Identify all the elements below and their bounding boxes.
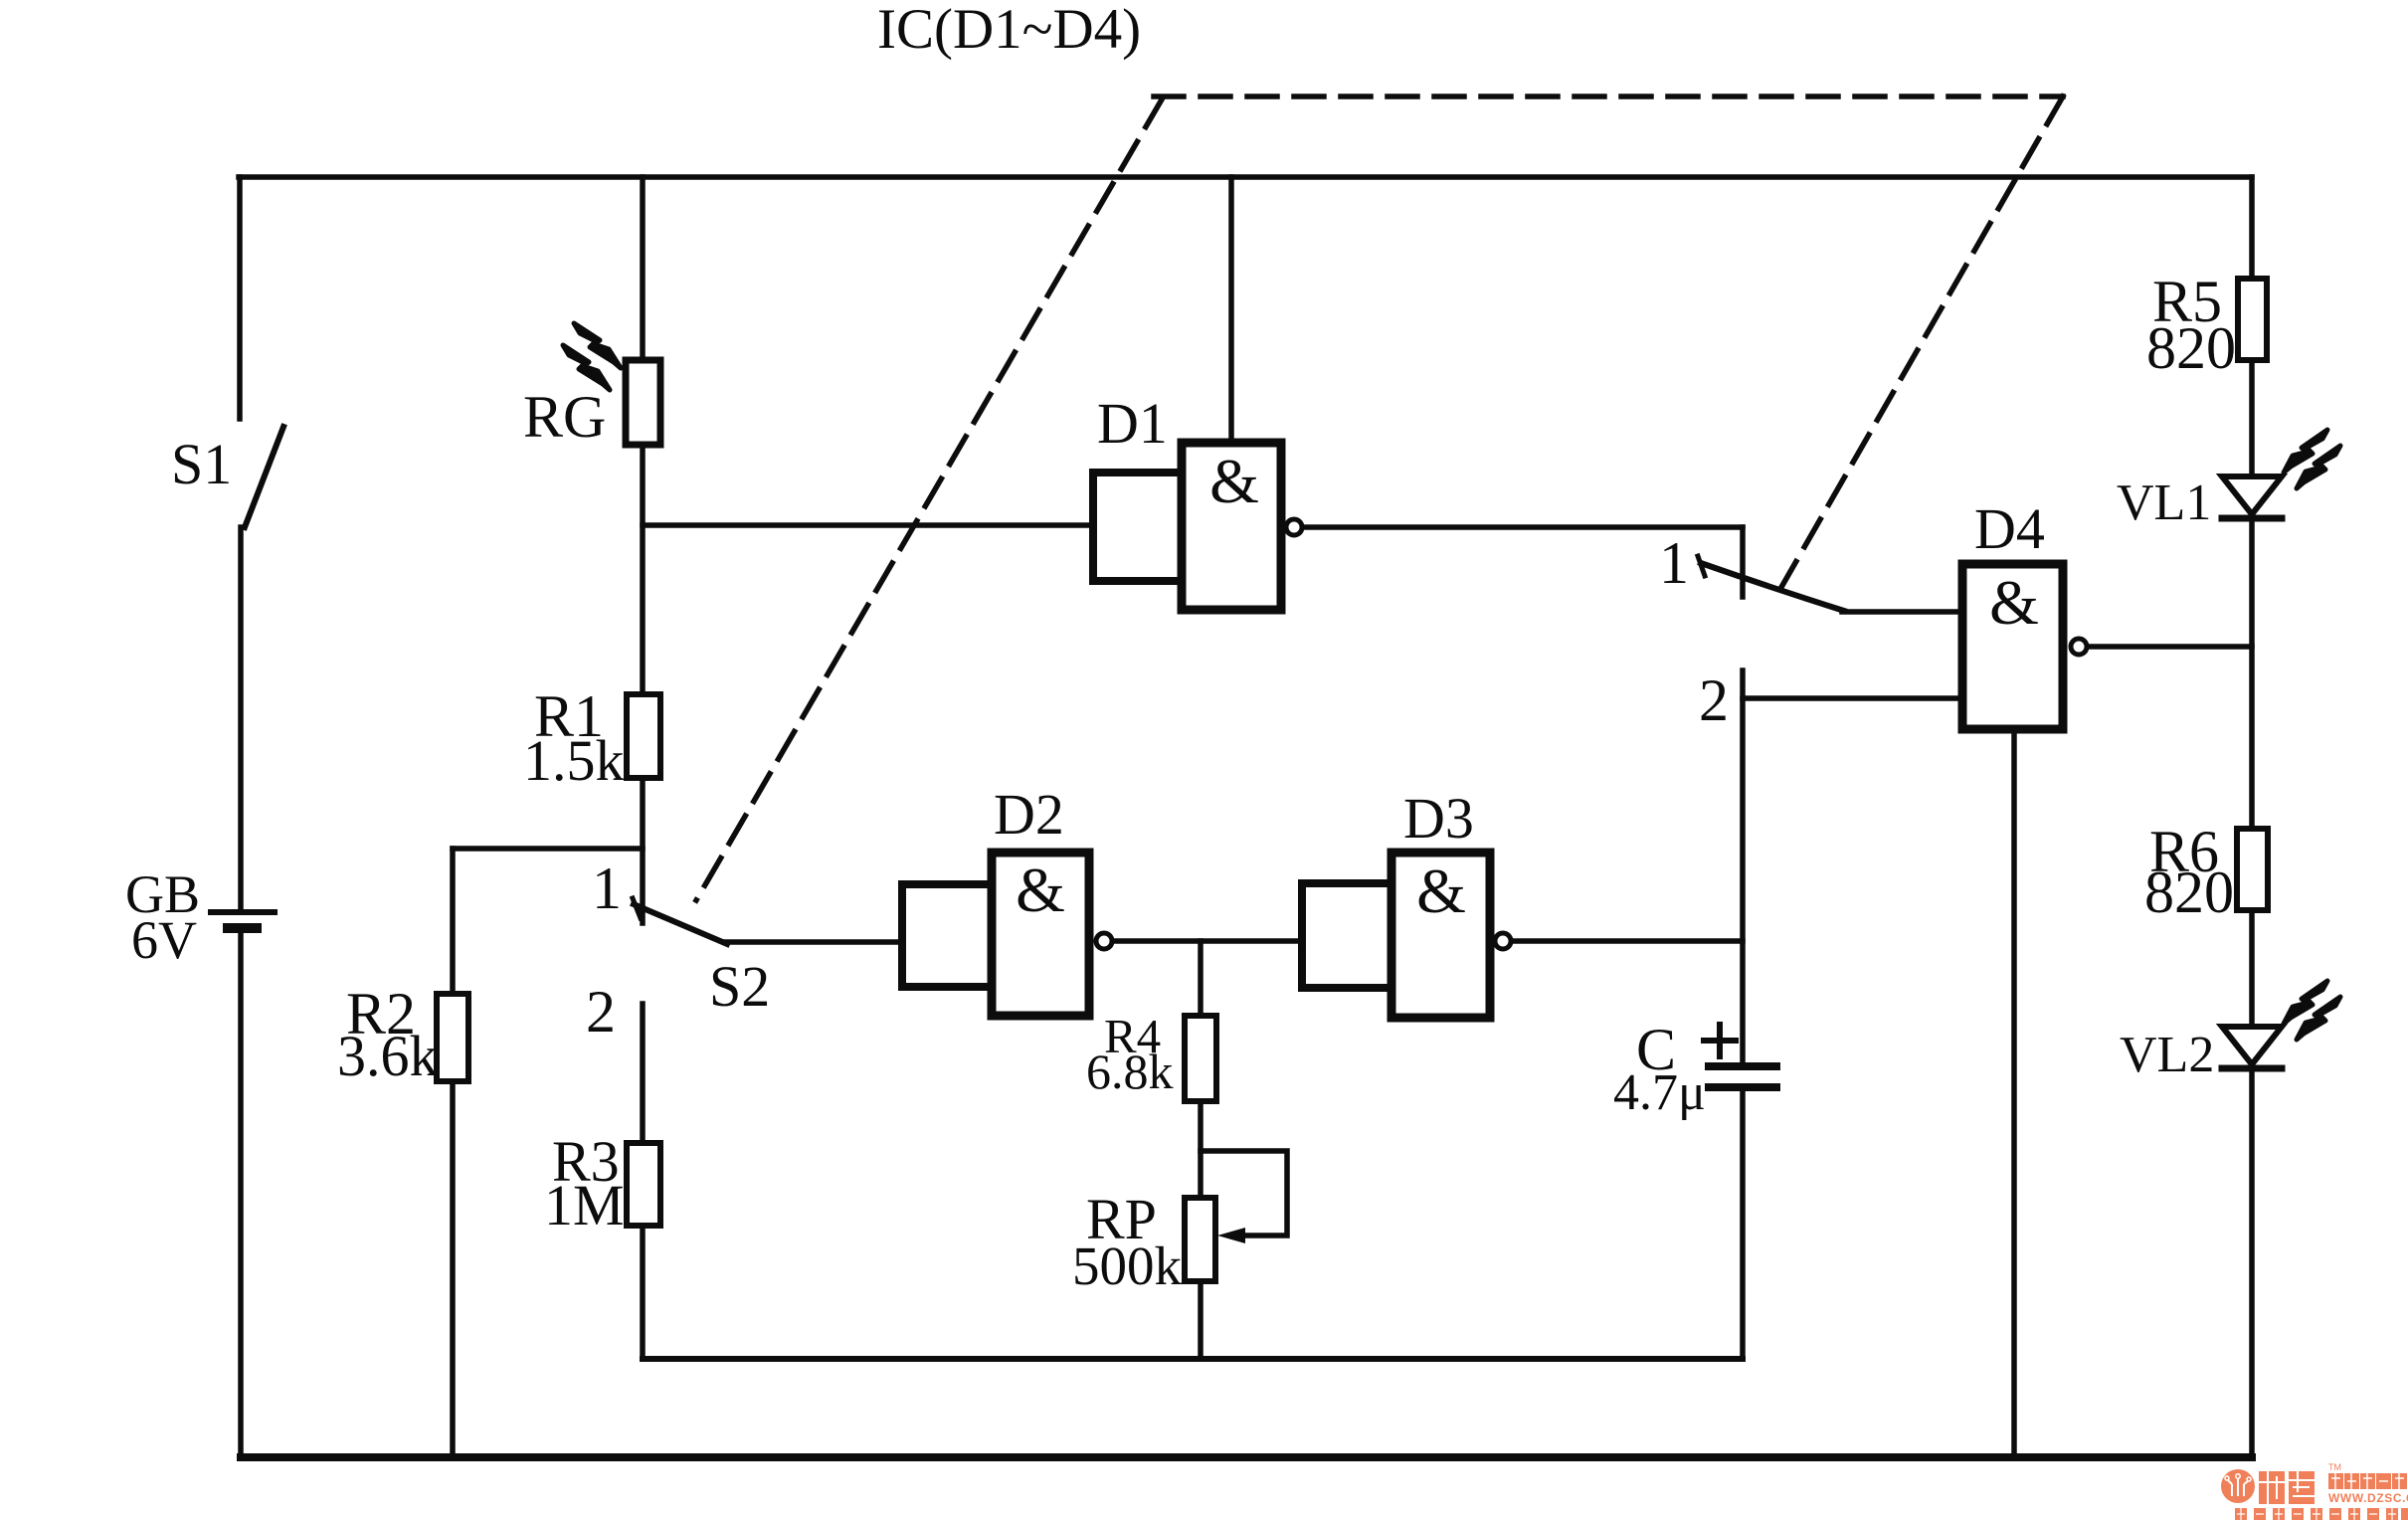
nand gate D1 output bubble <box>1286 519 1302 535</box>
IC package dashed outline: top edge <box>1154 94 2063 99</box>
svg-text:WWW.DZSC.COM: WWW.DZSC.COM <box>2328 1491 2408 1505</box>
RG light arrow 2 <box>563 345 610 390</box>
wire: left rail lower (battery - to bottom rail) <box>238 930 244 1457</box>
wire: D4 bottom pin to bottom rail <box>2011 729 2017 1457</box>
svg-text:1: 1 <box>1659 530 1689 596</box>
wire: branch to R2 <box>453 846 643 852</box>
wire: inner bottom rail <box>643 1356 1743 1362</box>
capacitor C bottom plate <box>1709 1083 1776 1091</box>
RP rheostat loop wire <box>1201 1151 1287 1236</box>
wire: node RG/R1 to D1 input <box>643 522 1093 528</box>
IC package dashed outline: right diagonal <box>1780 96 2063 589</box>
svg-text:D1: D1 <box>1097 391 1168 456</box>
wire: RG to R1 (node to D1 input) <box>640 445 646 694</box>
wire: D4 output to LED chain <box>2089 644 2252 650</box>
LED VL2 triangle <box>2222 1027 2282 1064</box>
svg-text:IC(D1~D4): IC(D1~D4) <box>877 0 1141 61</box>
nand gate D2 input box <box>902 884 992 987</box>
nand gate D4 output bubble <box>2071 639 2087 655</box>
wire: S2b arm to D4 input 1 <box>1842 609 1962 615</box>
svg-text:6V: 6V <box>131 910 197 970</box>
resistor R4 <box>1185 1016 1216 1101</box>
wire: contact 2 to D4 input 2 <box>1743 695 1962 701</box>
svg-text:1.5k: 1.5k <box>523 728 625 793</box>
svg-text:VL1: VL1 <box>2117 475 2211 531</box>
switch S2 section a (pole tick) <box>633 898 641 918</box>
wire: R3 to inner bottom rail <box>640 1226 646 1359</box>
svg-text:2: 2 <box>1699 667 1729 733</box>
wire: top supply rail <box>239 174 2252 180</box>
svg-text:TM: TM <box>2328 1462 2341 1472</box>
battery GB long plate <box>211 909 275 915</box>
wire: RG column from top rail <box>640 177 646 360</box>
wire: right rail top (to R5) <box>2249 177 2255 279</box>
wire: C bottom to inner bottom rail <box>1740 1087 1746 1359</box>
IC package dashed outline: left diagonal <box>696 99 1162 900</box>
svg-text:1: 1 <box>592 856 622 921</box>
nand gate D2 output bubble <box>1096 933 1112 949</box>
wire: bottom return rail <box>241 1453 2252 1461</box>
capacitor C plus sign <box>1704 1025 1736 1056</box>
nand gate D3 body <box>1391 853 1490 1018</box>
svg-text:820: 820 <box>2146 315 2236 381</box>
battery GB short plate <box>228 923 257 933</box>
resistor R1 <box>627 694 660 778</box>
svg-text:S1: S1 <box>171 432 232 496</box>
watermark slogan row (simulated CJK) <box>2235 1508 2408 1520</box>
RG light arrow 1 <box>574 323 621 368</box>
LED VL1 arrow 2 <box>2297 446 2340 488</box>
svg-text:D3: D3 <box>1403 786 1474 851</box>
wire: R5 to VL1 <box>2249 360 2255 476</box>
LED VL1 arrow 1 <box>2284 430 2327 473</box>
wire: VL2 to bottom rail <box>2249 1068 2255 1457</box>
wire: R4 top lead from D2-D3 net <box>1198 941 1204 1016</box>
watermark small CJK row (simulated) <box>2328 1473 2407 1489</box>
wire: RP bottom lead <box>1198 1281 1204 1359</box>
watermark logo circle <box>2221 1469 2255 1503</box>
wire: R2 top lead <box>450 849 456 994</box>
svg-text:1M: 1M <box>544 1173 625 1237</box>
svg-text:820: 820 <box>2144 859 2234 925</box>
LED VL1 triangle <box>2222 476 2282 514</box>
wire: D1 top pin to top rail <box>1228 177 1234 443</box>
wire: R6 to VL2 <box>2249 910 2255 1027</box>
wire: R1 to S2 pole 1 <box>640 778 646 923</box>
wire: contact 2 column (right) <box>1740 670 1746 1063</box>
svg-text:S2: S2 <box>709 954 770 1019</box>
LED VL2 arrow 2 <box>2297 997 2340 1040</box>
nand gate D1 body <box>1182 443 1281 610</box>
resistor R5 <box>2238 279 2267 360</box>
switch S1 <box>245 427 283 527</box>
resistor R6 <box>2237 829 2268 910</box>
wire: D3 output to C top node <box>1513 938 1743 944</box>
svg-text:D2: D2 <box>994 782 1064 847</box>
RP wiper arrowhead <box>1217 1228 1245 1243</box>
wire: S2a arm to D2 input <box>725 939 902 945</box>
wire: R4 to RP <box>1198 1101 1204 1198</box>
photoresistor RG <box>626 360 660 445</box>
switch S2 section b arm <box>1701 563 1844 611</box>
wire: S2 contact 2 (left) down to R3 <box>640 1004 646 1143</box>
svg-text:500k: 500k <box>1072 1236 1183 1296</box>
nand gate D4 body <box>1962 564 2063 729</box>
LED VL2 cathode bar <box>2222 1065 2282 1072</box>
resistor R3 <box>627 1143 660 1226</box>
svg-text:&: & <box>1416 856 1466 926</box>
watermark big CJK text (simulated) <box>2259 1471 2315 1504</box>
LED VL2 arrow 1 <box>2284 981 2327 1024</box>
switch S2 section b (pole tick) <box>1698 556 1705 576</box>
wire: left rail middle (S1 to battery +) <box>238 527 244 910</box>
wire: S2 right pole stub <box>1740 527 1746 597</box>
svg-text:RG: RG <box>523 384 606 450</box>
nand gate D2 body <box>992 853 1089 1016</box>
capacitor C top plate <box>1709 1062 1776 1070</box>
wire: D1 output to S2 pole 1 (right) <box>1304 524 1743 530</box>
LED VL1 cathode bar <box>2222 515 2282 522</box>
svg-text:&: & <box>1016 855 1065 925</box>
svg-text:2: 2 <box>586 979 616 1045</box>
svg-text:6.8k: 6.8k <box>1086 1044 1174 1099</box>
svg-text:D4: D4 <box>1974 496 2045 561</box>
nand gate D3 input box <box>1302 883 1391 988</box>
wire: VL1 to R6 (node D4 out) <box>2249 518 2255 829</box>
svg-text:VL2: VL2 <box>2120 1027 2214 1083</box>
wire: R2 bottom lead to bottom rail <box>450 1081 456 1457</box>
nand gate D3 output bubble <box>1495 933 1511 949</box>
wire: left rail upper (to S1 top contact) <box>237 177 243 419</box>
svg-text:&: & <box>1209 446 1259 516</box>
svg-text:3.6k: 3.6k <box>337 1024 439 1088</box>
svg-text:&: & <box>1989 567 2039 638</box>
nand gate D1 input box <box>1093 473 1182 581</box>
resistor R2 <box>437 994 468 1081</box>
svg-text:4.7μ: 4.7μ <box>1613 1064 1706 1121</box>
potentiometer RP body <box>1185 1198 1215 1281</box>
switch S2 section a arm <box>634 904 727 944</box>
wire: D2 output to D3 input <box>1114 938 1302 944</box>
